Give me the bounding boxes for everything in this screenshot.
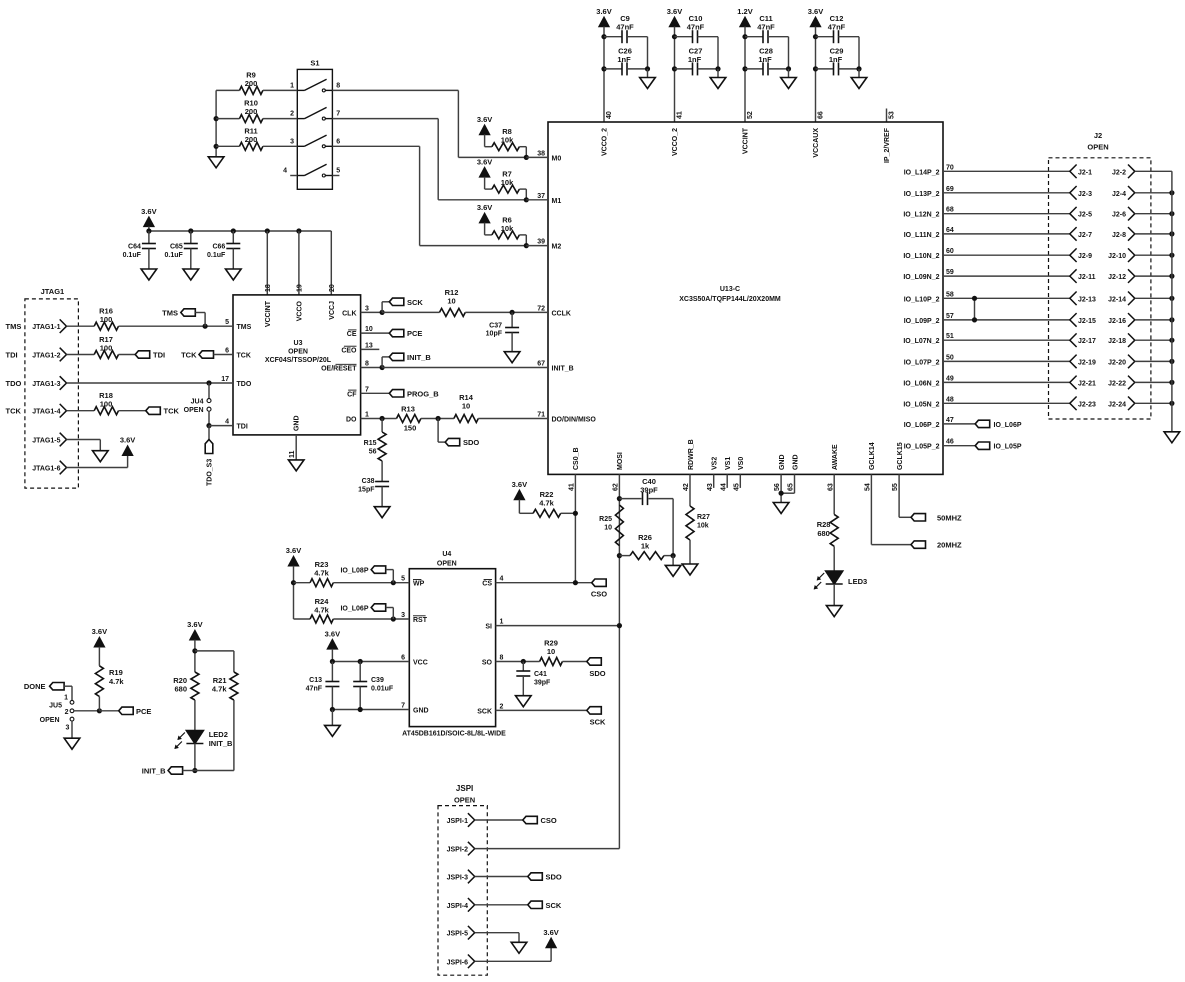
svg-text:4: 4 [283,168,287,175]
svg-text:7: 7 [401,703,405,710]
svg-text:1.2V: 1.2V [737,7,752,16]
svg-text:J2-12: J2-12 [1108,274,1126,281]
svg-text:C38: C38 [362,478,375,485]
svg-text:GCLK14: GCLK14 [869,442,876,470]
svg-text:VCCAUX: VCCAUX [813,128,820,158]
svg-text:JTAG1-4: JTAG1-4 [32,409,60,416]
svg-text:37: 37 [537,193,545,200]
svg-text:3.6V: 3.6V [543,928,558,937]
svg-text:3.6V: 3.6V [667,7,682,16]
svg-text:3: 3 [401,612,405,619]
svg-text:6: 6 [336,138,340,145]
svg-text:3.6V: 3.6V [120,436,135,445]
svg-text:OPEN: OPEN [1087,143,1108,152]
svg-text:680: 680 [174,685,187,694]
svg-text:4.7k: 4.7k [109,677,124,686]
svg-text:3.6V: 3.6V [477,115,492,124]
svg-text:SDO: SDO [546,873,562,882]
svg-text:R13: R13 [401,405,415,414]
svg-text:TDI: TDI [153,351,165,360]
svg-text:XCF04S/TSSOP/20L: XCF04S/TSSOP/20L [265,357,332,364]
svg-text:55: 55 [892,483,899,491]
svg-text:C66: C66 [212,244,225,251]
svg-text:R19: R19 [109,668,123,677]
svg-text:J2-7: J2-7 [1078,232,1092,239]
svg-text:RST: RST [413,617,428,624]
svg-text:OPEN: OPEN [454,796,475,805]
svg-text:JTAG1-2: JTAG1-2 [32,353,60,360]
svg-text:IO_L05P: IO_L05P [994,444,1022,451]
svg-text:47: 47 [946,417,954,424]
svg-text:CSO: CSO [541,816,557,825]
svg-text:39pF: 39pF [640,486,658,495]
svg-text:GND: GND [792,454,799,470]
svg-text:200: 200 [245,107,258,116]
svg-text:JU5: JU5 [49,703,62,710]
svg-text:44: 44 [720,483,727,491]
svg-text:4.7k: 4.7k [539,499,554,508]
svg-text:10k: 10k [697,523,709,530]
svg-text:SCK: SCK [407,298,423,307]
svg-text:58: 58 [946,291,954,298]
svg-text:J2-21: J2-21 [1078,380,1096,387]
svg-text:J2-19: J2-19 [1078,359,1096,366]
svg-text:IO_L10P_2: IO_L10P_2 [904,296,940,303]
svg-text:70: 70 [946,164,954,171]
svg-text:PROG_B: PROG_B [407,389,439,398]
svg-text:1: 1 [290,82,294,89]
svg-text:CE: CE [347,331,357,338]
svg-text:53: 53 [889,111,896,119]
svg-text:VCCO_2: VCCO_2 [602,128,609,156]
svg-text:3.6V: 3.6V [286,546,301,555]
svg-text:IO_L06P: IO_L06P [994,422,1022,429]
svg-text:TMS: TMS [6,322,22,331]
svg-text:JSPI-1: JSPI-1 [447,818,469,825]
svg-text:8: 8 [500,655,504,662]
svg-text:100: 100 [100,400,113,409]
svg-text:VS0: VS0 [738,457,745,470]
svg-text:C37: C37 [489,323,502,330]
svg-text:2: 2 [500,703,504,710]
svg-text:680: 680 [817,529,830,538]
svg-text:LED2: LED2 [209,730,228,739]
svg-text:10k: 10k [501,178,514,187]
svg-text:17: 17 [221,376,229,383]
svg-text:J2-10: J2-10 [1108,253,1126,260]
svg-text:JTAG1-3: JTAG1-3 [32,381,60,388]
svg-text:56: 56 [774,483,781,491]
svg-text:51: 51 [946,333,954,340]
svg-text:INIT_B: INIT_B [552,366,574,373]
svg-text:TCK: TCK [237,353,251,360]
svg-text:IO_L05N_2: IO_L05N_2 [903,401,939,408]
svg-text:TDO_S3: TDO_S3 [207,459,214,486]
svg-text:60: 60 [946,248,954,255]
svg-text:C39: C39 [371,677,384,684]
svg-text:J2-4: J2-4 [1112,191,1126,198]
svg-text:LED3: LED3 [848,577,867,586]
svg-text:10: 10 [447,297,455,306]
svg-text:GND: GND [294,415,301,431]
svg-text:IO_L05P_2: IO_L05P_2 [904,444,940,451]
svg-text:19: 19 [296,284,303,292]
svg-text:10pF: 10pF [486,331,503,338]
svg-text:56: 56 [369,449,377,456]
svg-text:JSPI-6: JSPI-6 [447,959,469,966]
svg-text:0.1uF: 0.1uF [123,252,142,259]
svg-text:59: 59 [946,269,954,276]
svg-text:5: 5 [336,168,340,175]
svg-text:0.1uF: 0.1uF [165,252,184,259]
svg-text:2: 2 [290,111,294,118]
svg-text:J2-16: J2-16 [1108,318,1126,325]
svg-text:3: 3 [290,138,294,145]
svg-text:J2-8: J2-8 [1112,232,1126,239]
svg-text:18: 18 [265,284,272,292]
svg-text:IO_L08P: IO_L08P [340,568,368,575]
svg-text:R28: R28 [817,520,831,529]
svg-text:7: 7 [336,111,340,118]
svg-text:69: 69 [946,186,954,193]
svg-text:M2: M2 [552,244,562,251]
svg-text:71: 71 [537,412,545,419]
svg-text:WP: WP [413,581,425,588]
svg-text:CF: CF [347,391,357,398]
svg-text:8: 8 [336,82,340,89]
svg-text:DO/DIN/MISO: DO/DIN/MISO [552,417,597,424]
svg-text:IP_2/VREF: IP_2/VREF [884,127,891,163]
svg-text:JSPI-5: JSPI-5 [447,931,469,938]
svg-text:SDO: SDO [589,669,605,678]
svg-text:42: 42 [683,483,690,491]
svg-text:RDWR_B: RDWR_B [688,439,695,470]
svg-text:IO_L10N_2: IO_L10N_2 [903,253,939,260]
svg-text:J2-23: J2-23 [1078,401,1096,408]
svg-text:SI: SI [485,624,492,631]
svg-text:39: 39 [537,239,545,246]
svg-text:INIT_B: INIT_B [209,739,233,748]
svg-text:J2-18: J2-18 [1108,338,1126,345]
svg-text:J2-20: J2-20 [1108,359,1126,366]
svg-text:3.6V: 3.6V [596,7,611,16]
svg-text:TDI: TDI [6,351,18,360]
svg-text:TDO: TDO [6,379,22,388]
svg-text:40: 40 [606,111,613,119]
svg-text:41: 41 [569,483,576,491]
svg-text:50: 50 [946,354,954,361]
svg-text:TDO: TDO [237,381,252,388]
svg-text:3.6V: 3.6V [512,480,527,489]
svg-text:TDI: TDI [237,424,248,431]
svg-text:65: 65 [788,483,795,491]
svg-text:100: 100 [100,315,113,324]
svg-text:C65: C65 [170,244,183,251]
svg-text:OPEN: OPEN [184,407,204,414]
svg-text:J2-13: J2-13 [1078,296,1096,303]
svg-text:45: 45 [733,483,740,491]
svg-text:1: 1 [500,619,504,626]
svg-text:10: 10 [365,326,373,333]
svg-text:IO_L06P_2: IO_L06P_2 [904,422,940,429]
svg-text:TCK: TCK [181,351,197,360]
svg-text:15pF: 15pF [358,487,375,494]
svg-text:JSPI-2: JSPI-2 [447,847,469,854]
svg-text:U3: U3 [294,340,303,347]
svg-text:5: 5 [401,576,405,583]
svg-text:J2-6: J2-6 [1112,212,1126,219]
svg-text:C64: C64 [128,244,141,251]
svg-text:CS0_B: CS0_B [573,447,580,470]
svg-text:SCK: SCK [546,901,562,910]
svg-text:IO_L07N_2: IO_L07N_2 [903,338,939,345]
svg-text:J2-1: J2-1 [1078,169,1092,176]
svg-text:J2-5: J2-5 [1078,212,1092,219]
svg-text:47nF: 47nF [687,23,705,32]
svg-text:3.6V: 3.6V [325,629,340,638]
svg-text:CSO: CSO [591,590,607,599]
svg-text:41: 41 [677,111,684,119]
svg-text:IO_L14P_2: IO_L14P_2 [904,169,940,176]
svg-text:MOSI: MOSI [617,452,624,470]
svg-text:J2: J2 [1094,131,1102,140]
svg-text:INIT_B: INIT_B [142,767,166,776]
svg-text:SCK: SCK [477,708,492,715]
svg-text:S1: S1 [310,59,319,68]
svg-text:50MHZ: 50MHZ [937,513,962,522]
svg-text:TCK: TCK [164,407,180,416]
svg-text:XC3S50A/TQFP144L/20X20MM: XC3S50A/TQFP144L/20X20MM [679,296,781,303]
svg-text:1: 1 [365,412,369,419]
svg-text:GND: GND [779,454,786,470]
svg-text:3.6V: 3.6V [141,207,156,216]
svg-text:66: 66 [818,111,825,119]
svg-text:R15: R15 [364,440,377,447]
svg-text:JSPI-3: JSPI-3 [447,875,469,882]
svg-text:7: 7 [365,386,369,393]
svg-text:JSPI: JSPI [456,784,473,793]
svg-text:63: 63 [827,483,834,491]
svg-text:4.7k: 4.7k [314,569,329,578]
svg-text:OE/RESET: OE/RESET [321,366,357,373]
svg-text:JTAG1: JTAG1 [41,287,65,296]
svg-text:4: 4 [225,419,229,426]
svg-text:JTAG1-5: JTAG1-5 [32,438,60,445]
svg-text:IO_L06P: IO_L06P [340,606,368,613]
svg-text:1nF: 1nF [829,55,843,64]
svg-text:J2-17: J2-17 [1078,338,1096,345]
svg-text:1nF: 1nF [758,55,772,64]
svg-text:CS: CS [482,581,492,588]
svg-text:GND: GND [413,708,429,715]
svg-text:1k: 1k [641,542,650,551]
svg-text:5: 5 [225,319,229,326]
svg-text:11: 11 [289,450,296,458]
svg-text:54: 54 [865,483,872,491]
svg-text:VCCO_2: VCCO_2 [672,128,679,156]
svg-text:4.7k: 4.7k [212,685,227,694]
svg-text:150: 150 [404,424,417,433]
svg-text:IO_L09P_2: IO_L09P_2 [904,318,940,325]
svg-text:TMS: TMS [162,309,178,318]
svg-text:J2-24: J2-24 [1108,401,1126,408]
svg-text:67: 67 [537,361,545,368]
svg-text:6: 6 [401,655,405,662]
svg-text:64: 64 [946,227,954,234]
svg-text:VS2: VS2 [712,457,719,470]
svg-text:52: 52 [747,111,754,119]
svg-text:PCE: PCE [407,329,422,338]
svg-text:SO: SO [482,660,493,667]
svg-text:DO: DO [346,417,357,424]
svg-text:IO_L12N_2: IO_L12N_2 [903,212,939,219]
svg-text:20: 20 [329,284,336,292]
svg-text:VCCO: VCCO [296,300,303,321]
svg-text:3.6V: 3.6V [92,627,107,636]
svg-text:TMS: TMS [237,324,252,331]
svg-text:1nF: 1nF [617,55,631,64]
svg-text:2: 2 [65,709,69,716]
svg-text:4: 4 [500,576,504,583]
svg-text:38: 38 [537,150,545,157]
svg-text:J2-11: J2-11 [1078,274,1096,281]
svg-text:AWAKE: AWAKE [832,444,839,470]
svg-text:46: 46 [946,439,954,446]
svg-text:SCK: SCK [590,718,606,727]
svg-text:62: 62 [613,483,620,491]
svg-text:47nF: 47nF [828,23,846,32]
svg-text:3: 3 [365,305,369,312]
svg-text:IO_L06N_2: IO_L06N_2 [903,380,939,387]
svg-text:AT45DB161D/SOIC-8L/8L-WIDE: AT45DB161D/SOIC-8L/8L-WIDE [402,731,506,738]
svg-text:10: 10 [462,402,470,411]
svg-text:INIT_B: INIT_B [407,353,431,362]
svg-text:U4: U4 [442,551,451,558]
svg-text:20MHZ: 20MHZ [937,541,962,550]
svg-text:10k: 10k [501,224,514,233]
svg-text:10k: 10k [501,136,514,145]
svg-text:VCC: VCC [413,660,428,667]
svg-text:R27: R27 [697,514,710,521]
svg-text:57: 57 [946,313,954,320]
svg-text:IO_L13P_2: IO_L13P_2 [904,191,940,198]
svg-text:3.6V: 3.6V [477,157,492,166]
svg-text:68: 68 [946,207,954,214]
svg-text:OPEN: OPEN [288,349,308,356]
svg-text:J2-22: J2-22 [1108,380,1126,387]
svg-text:200: 200 [245,79,258,88]
svg-text:J2-2: J2-2 [1112,169,1126,176]
svg-text:3: 3 [65,725,69,732]
svg-text:JSPI-4: JSPI-4 [447,903,469,910]
svg-text:49: 49 [946,375,954,382]
svg-text:47nF: 47nF [757,23,775,32]
svg-text:47nF: 47nF [616,23,634,32]
svg-text:R25: R25 [599,516,612,523]
svg-text:J2-14: J2-14 [1108,296,1126,303]
svg-text:8: 8 [365,361,369,368]
svg-text:J2-9: J2-9 [1078,253,1092,260]
svg-text:DONE: DONE [24,682,46,691]
svg-text:TCK: TCK [6,407,22,416]
svg-text:J2-15: J2-15 [1078,318,1096,325]
svg-text:CLK: CLK [342,310,356,317]
svg-text:47nF: 47nF [306,686,323,693]
svg-text:GCLK15: GCLK15 [897,442,904,470]
svg-text:JTAG1-1: JTAG1-1 [32,324,60,331]
svg-text:1nF: 1nF [688,55,702,64]
svg-text:200: 200 [245,135,258,144]
svg-text:1: 1 [64,695,68,702]
svg-text:SDO: SDO [463,438,479,447]
svg-text:10: 10 [547,647,555,656]
svg-text:0.01uF: 0.01uF [371,686,394,693]
svg-text:J2-3: J2-3 [1078,191,1092,198]
svg-text:C41: C41 [534,671,547,678]
svg-text:0.1uF: 0.1uF [207,252,226,259]
svg-text:IO_L09N_2: IO_L09N_2 [903,274,939,281]
svg-text:43: 43 [707,483,714,491]
svg-text:PCE: PCE [136,707,151,716]
svg-text:OPEN: OPEN [437,561,457,568]
svg-text:72: 72 [537,305,545,312]
svg-text:13: 13 [365,342,373,349]
svg-text:VS1: VS1 [725,457,732,470]
svg-text:VCCINT: VCCINT [743,127,750,154]
svg-text:JTAG1-6: JTAG1-6 [32,466,60,473]
svg-text:C13: C13 [309,677,322,684]
svg-text:U13-C: U13-C [720,286,740,293]
svg-text:VCCJ: VCCJ [329,301,336,320]
svg-text:39pF: 39pF [534,680,551,687]
svg-text:IO_L11N_2: IO_L11N_2 [904,232,940,239]
svg-text:4.7k: 4.7k [314,606,329,615]
svg-text:10: 10 [604,525,612,532]
svg-text:3.6V: 3.6V [477,203,492,212]
svg-text:6: 6 [225,348,229,355]
svg-text:IO_L07P_2: IO_L07P_2 [904,359,940,366]
svg-text:48: 48 [946,396,954,403]
svg-text:CEO: CEO [341,347,357,354]
svg-text:3.6V: 3.6V [808,7,823,16]
svg-text:JU4: JU4 [191,399,204,406]
svg-text:VCCINT: VCCINT [265,300,272,327]
svg-text:100: 100 [100,343,113,352]
svg-text:M1: M1 [552,198,562,205]
svg-text:3.6V: 3.6V [187,620,202,629]
svg-text:CCLK: CCLK [552,310,571,317]
svg-text:M0: M0 [552,155,562,162]
svg-text:OPEN: OPEN [40,717,60,724]
